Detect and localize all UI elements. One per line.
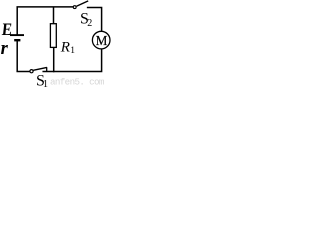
svg-text:r: r — [1, 39, 9, 59]
svg-text:1: 1 — [43, 79, 48, 88]
svg-text:anfen5. com: anfen5. com — [50, 76, 105, 87]
svg-text:2: 2 — [87, 18, 92, 29]
svg-text:1: 1 — [70, 46, 75, 56]
svg-text:E: E — [1, 19, 13, 39]
svg-text:M: M — [96, 33, 108, 48]
svg-text:R: R — [60, 39, 70, 55]
